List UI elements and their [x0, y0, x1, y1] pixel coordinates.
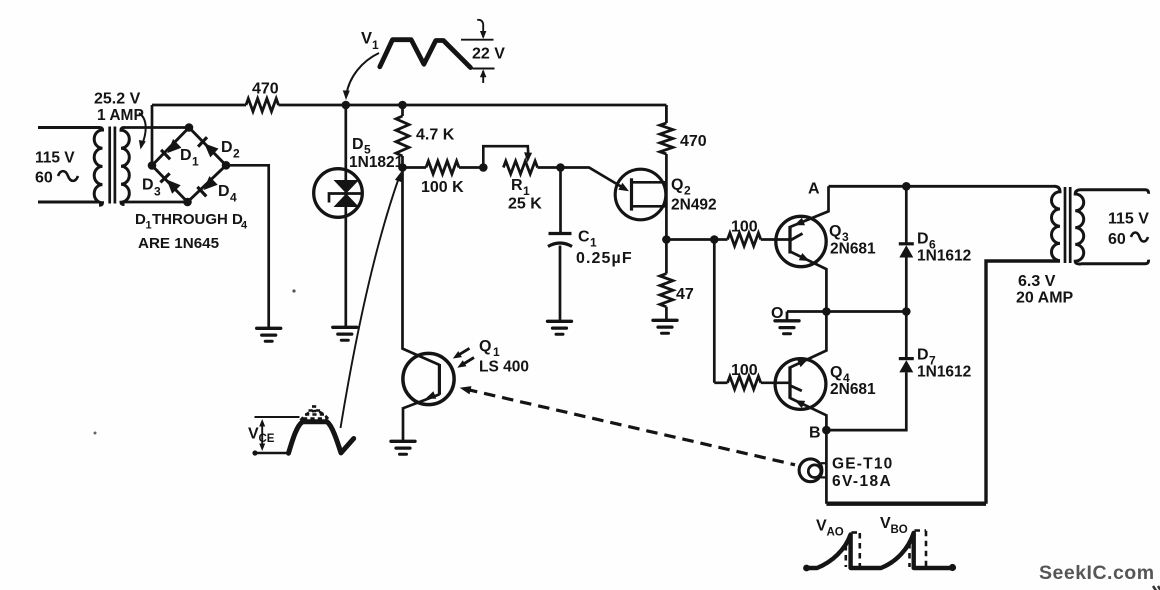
capacitor C1: [548, 234, 572, 247]
label 0.25uF: [576, 250, 633, 267]
label D7: [917, 347, 936, 368]
label 2N492: [671, 197, 717, 214]
node 100K right: [479, 163, 488, 172]
svg-text:Q: Q: [479, 338, 491, 355]
svg-text:6.3 V: 6.3 V: [1018, 273, 1056, 290]
svg-text:AO: AO: [827, 527, 844, 539]
diode D2 (bridge upper-right): [198, 137, 218, 157]
svg-text:1: 1: [192, 155, 199, 169]
label D1: [180, 147, 199, 169]
wire gate branch down: [713, 240, 716, 383]
corner mark: [1153, 586, 1160, 590]
svg-text:D: D: [218, 183, 230, 200]
svg-text:25 K: 25 K: [508, 196, 542, 213]
ground (bridge output): [257, 328, 281, 341]
svg-text:22 V: 22 V: [472, 46, 505, 63]
node V1 on rail: [342, 101, 351, 110]
resistor 100 (lower): [714, 376, 790, 389]
svg-text:0.25µF: 0.25µF: [576, 250, 633, 267]
ground (below Q1): [391, 441, 415, 454]
diode D3 (bridge lower-left): [160, 173, 180, 193]
diode D6: [899, 244, 914, 258]
wire B to lamp to bottom rail: [825, 430, 828, 504]
svg-text:V: V: [816, 518, 827, 535]
svg-text:ARE 1N645: ARE 1N645: [138, 235, 220, 252]
wire bridge right node to ground: [226, 165, 269, 327]
resistor 470 (top): [246, 99, 279, 112]
svg-text:4: 4: [241, 220, 248, 232]
dimension arrow VCE: [252, 417, 299, 456]
ground (node O): [775, 321, 799, 334]
label 100K: [421, 179, 464, 196]
dimension lines 22V: [461, 20, 495, 83]
svg-text:470: 470: [252, 81, 279, 98]
svg-text:100: 100: [731, 219, 758, 236]
diode D1 (bridge upper-left): [161, 139, 181, 159]
unijunction Q2 base leads: [632, 182, 667, 206]
label Q2: [671, 177, 691, 198]
pointer line node to VCE waveform: [341, 172, 402, 429]
svg-text:SeekIC.com: SeekIC.com: [1039, 562, 1155, 584]
svg-text:D: D: [917, 347, 929, 364]
label Q1: [479, 338, 500, 359]
svg-text:2: 2: [233, 147, 240, 161]
transformer T1 primary winding: [38, 128, 103, 206]
potentiometer R1 25K: [503, 161, 560, 174]
svg-text:2: 2: [684, 184, 691, 198]
waveform VAO: [803, 533, 956, 572]
svg-text:20 AMP: 20 AMP: [1016, 290, 1074, 307]
label D5: [352, 136, 371, 157]
svg-text:CE: CE: [259, 433, 275, 445]
label 4.7K: [416, 127, 455, 144]
svg-text:THROUGH D: THROUGH D: [152, 211, 243, 228]
label VCE: [248, 426, 275, 446]
wire D6 to O: [905, 258, 908, 312]
light arrows into Q1: [453, 348, 474, 367]
SCR Q3 anode lead: [790, 186, 829, 227]
svg-text:100 K: 100 K: [421, 179, 464, 196]
svg-text:2N492: 2N492: [671, 197, 717, 214]
svg-text:A: A: [808, 181, 820, 198]
svg-text:3: 3: [154, 185, 161, 199]
label GE-T10: [832, 456, 893, 473]
label 115V 60Hz (T1 primary): [35, 150, 78, 187]
label 22V: [472, 46, 505, 63]
label LS400: [479, 359, 529, 376]
ground (below 47): [653, 320, 677, 333]
SCR Q3 gate stub: [790, 234, 803, 241]
transformer T1 secondary winding: [121, 128, 189, 205]
transformer T1 core: [110, 127, 115, 204]
diode D4 (bridge lower-right): [197, 176, 217, 196]
svg-text:25.2 V: 25.2 V: [94, 91, 141, 108]
label 47: [676, 286, 694, 303]
label 470 (right): [680, 133, 707, 150]
phototransistor Q1 bar: [438, 364, 441, 395]
transformer T2 primary winding: [1052, 186, 1061, 260]
svg-text:R: R: [511, 177, 523, 194]
SCR Q4 gate stub: [790, 386, 802, 391]
label V1: [361, 30, 379, 53]
waveform VAO VBO dashed continuation: [846, 531, 926, 568]
label D3: [142, 177, 161, 199]
label O: [771, 305, 783, 322]
svg-text:2N681: 2N681: [830, 381, 876, 398]
lamp GE-T10: [799, 459, 826, 482]
wire R1 wiper bypass: [483, 146, 532, 167]
svg-text:100: 100: [731, 362, 758, 379]
svg-text:D: D: [135, 211, 146, 228]
svg-text:D: D: [917, 231, 929, 248]
wire bridge left node to top rail: [151, 105, 154, 166]
node bridge top: [185, 123, 194, 132]
svg-text:60: 60: [35, 170, 53, 187]
svg-text:47: 47: [676, 286, 694, 303]
svg-text:4.7 K: 4.7 K: [416, 127, 455, 144]
label VAO: [816, 518, 844, 539]
phototransistor Q1 circle: [403, 353, 454, 404]
svg-text:1: 1: [146, 220, 152, 232]
svg-text:6V-18A: 6V-18A: [832, 473, 892, 490]
label R1: [511, 177, 530, 198]
svg-text:Q: Q: [830, 364, 842, 381]
SeekIC.com logo: [1039, 562, 1155, 584]
svg-text:C: C: [578, 229, 590, 246]
svg-text:LS 400: LS 400: [479, 359, 529, 376]
wire top rail: [152, 104, 666, 107]
waveform V1 (clipped sine): [380, 40, 471, 68]
svg-text:V: V: [361, 30, 372, 48]
node gate branch: [710, 235, 719, 244]
label 1N1821: [349, 154, 404, 171]
label VBO: [880, 515, 908, 536]
svg-text:1N1612: 1N1612: [917, 248, 971, 265]
wire T2 secondary leads: [1081, 190, 1149, 264]
resistor 100 (upper): [714, 233, 790, 246]
label 115V (right): [1108, 211, 1149, 228]
svg-text:1N1821: 1N1821: [349, 154, 404, 171]
label 1N1612 (D6): [917, 248, 971, 265]
SCR Q4 cathode lead: [790, 398, 826, 430]
svg-text:1: 1: [493, 345, 500, 359]
diode D7: [899, 359, 914, 373]
svg-text:V: V: [248, 426, 259, 443]
SCR Q4 anode lead: [790, 312, 826, 368]
unijunction Q2 circle: [615, 169, 666, 220]
svg-text:BO: BO: [891, 524, 908, 536]
svg-text:1: 1: [372, 38, 379, 52]
svg-text:1N1612: 1N1612: [917, 364, 971, 381]
label 6V-18A: [832, 473, 892, 490]
zener D5 symbol: [329, 180, 363, 207]
wire Q2 emitter: [561, 168, 630, 192]
node R1 output: [556, 163, 565, 172]
svg-text:60: 60: [1108, 231, 1126, 248]
wire node to gate branch: [666, 238, 714, 241]
resistor 47: [660, 240, 673, 320]
SCR Q4 bar: [788, 367, 791, 399]
node bridge left: [148, 161, 157, 170]
svg-text:V: V: [880, 515, 891, 532]
ground (below D5): [333, 327, 357, 340]
label Q4: [830, 364, 850, 385]
wire Q1 collector: [403, 168, 440, 365]
wire bridge edges: [152, 128, 226, 203]
transformer T2 core: [1065, 187, 1070, 263]
label 2N681 (Q4): [830, 381, 876, 398]
svg-text:D: D: [142, 177, 154, 194]
arrow from 1 AMP label to secondary winding: [139, 113, 146, 150]
node O-Q3Q4: [822, 307, 831, 316]
label 60Hz (right): [1108, 231, 1148, 248]
wire bottom rail: [826, 502, 986, 506]
node A-D6: [902, 182, 911, 191]
wire C1 top: [559, 168, 562, 234]
svg-text:GE-T10: GE-T10: [832, 456, 893, 473]
svg-text:1 AMP: 1 AMP: [97, 107, 144, 124]
transformer T2 secondary winding: [1075, 190, 1084, 264]
label 470 (top): [252, 81, 279, 98]
svg-text:D: D: [180, 147, 192, 164]
label B: [809, 425, 821, 442]
wire rail corner to 470: [665, 105, 668, 123]
wire C1 bottom: [559, 246, 562, 321]
label 100 (lower): [731, 362, 758, 379]
svg-text:Q: Q: [829, 223, 841, 240]
resistor 4.7K: [396, 105, 409, 168]
svg-text:1: 1: [590, 236, 597, 250]
resistor 100K: [403, 161, 484, 174]
unijunction Q2 base bar: [630, 178, 633, 210]
wire D6 branch top: [905, 186, 908, 245]
label 6.3V: [1018, 273, 1056, 290]
wire O rail: [787, 312, 906, 320]
label 2N681 (Q3): [830, 241, 876, 258]
svg-text:B: B: [809, 425, 821, 442]
label 20 AMP: [1016, 290, 1074, 307]
zener D5 1N1821 circle: [314, 169, 363, 218]
wire right riser: [986, 261, 1060, 504]
label Q3: [829, 223, 849, 244]
label 1N1612 (D7): [917, 364, 971, 381]
speck: [94, 289, 296, 434]
wire D7 to B: [826, 372, 906, 430]
SCR Q4 circle: [775, 359, 826, 410]
node B: [822, 426, 831, 435]
wire 470 to node: [665, 154, 668, 240]
dashed arrow lamp light to Q1: [460, 386, 795, 465]
svg-text:115 V: 115 V: [35, 150, 75, 167]
svg-text:470: 470: [680, 133, 707, 150]
label 100 (upper): [731, 219, 758, 236]
waveform VCE clipped-peak stipple: [301, 407, 330, 421]
svg-text:Q: Q: [671, 177, 683, 194]
caption D1 through D4 are 1N645: [135, 211, 248, 252]
resistor 470 (right): [660, 123, 673, 154]
wire D5 branch: [344, 105, 347, 326]
svg-text:2N681: 2N681: [830, 241, 876, 258]
SCR Q3 bar: [788, 226, 791, 254]
label D4: [218, 183, 237, 205]
svg-text:D: D: [221, 139, 233, 156]
label 25.2V 1 AMP (T1 secondary): [94, 91, 144, 125]
svg-text:115 V: 115 V: [1108, 211, 1149, 228]
label C1: [578, 229, 597, 250]
waveform VCE (clipped sine hump): [289, 422, 354, 453]
node bridge bottom: [183, 198, 192, 207]
wire A rail: [829, 185, 1055, 188]
label 25K: [508, 196, 542, 213]
svg-text:D: D: [352, 136, 364, 153]
SCR Q3 circle: [776, 216, 826, 266]
node 4.7K top: [398, 101, 407, 110]
wire D7 branch top: [905, 312, 908, 361]
node 4.7K bottom: [398, 163, 407, 172]
svg-text:4: 4: [230, 191, 237, 205]
ground (below C1): [548, 321, 572, 334]
label D6: [917, 231, 936, 252]
label A: [808, 181, 820, 198]
node O-D6D7: [902, 307, 911, 316]
arrow from V1 label to rail node: [343, 53, 379, 100]
label D2: [221, 139, 240, 161]
node bridge right: [222, 161, 231, 170]
phototransistor Q1 emitter: [403, 391, 439, 440]
node Q2 output: [662, 235, 671, 244]
SCR Q3 cathode lead: [790, 252, 826, 312]
